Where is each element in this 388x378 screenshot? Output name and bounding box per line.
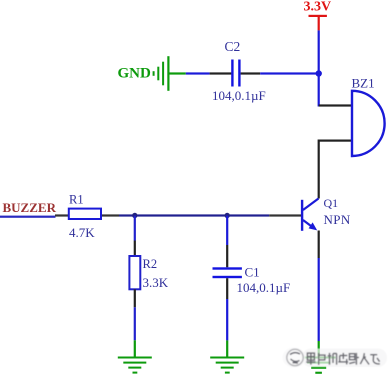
svg-text:104,0.1µF: 104,0.1µF — [237, 280, 291, 295]
svg-text:4.7K: 4.7K — [69, 225, 95, 240]
svg-text:GND: GND — [118, 66, 152, 82]
svg-text:C1: C1 — [245, 264, 260, 279]
svg-text:Q1: Q1 — [324, 196, 339, 210]
svg-text:3.3V: 3.3V — [304, 0, 332, 15]
svg-text:R2: R2 — [143, 257, 158, 271]
svg-text:BZ1: BZ1 — [352, 75, 375, 90]
svg-text:R1: R1 — [69, 193, 84, 207]
svg-text:104,0.1µF: 104,0.1µF — [212, 88, 266, 103]
svg-text:3.3K: 3.3K — [143, 275, 169, 290]
svg-text:BUZZER: BUZZER — [3, 200, 57, 215]
svg-text:C2: C2 — [225, 39, 241, 54]
svg-text:NPN: NPN — [324, 212, 351, 227]
